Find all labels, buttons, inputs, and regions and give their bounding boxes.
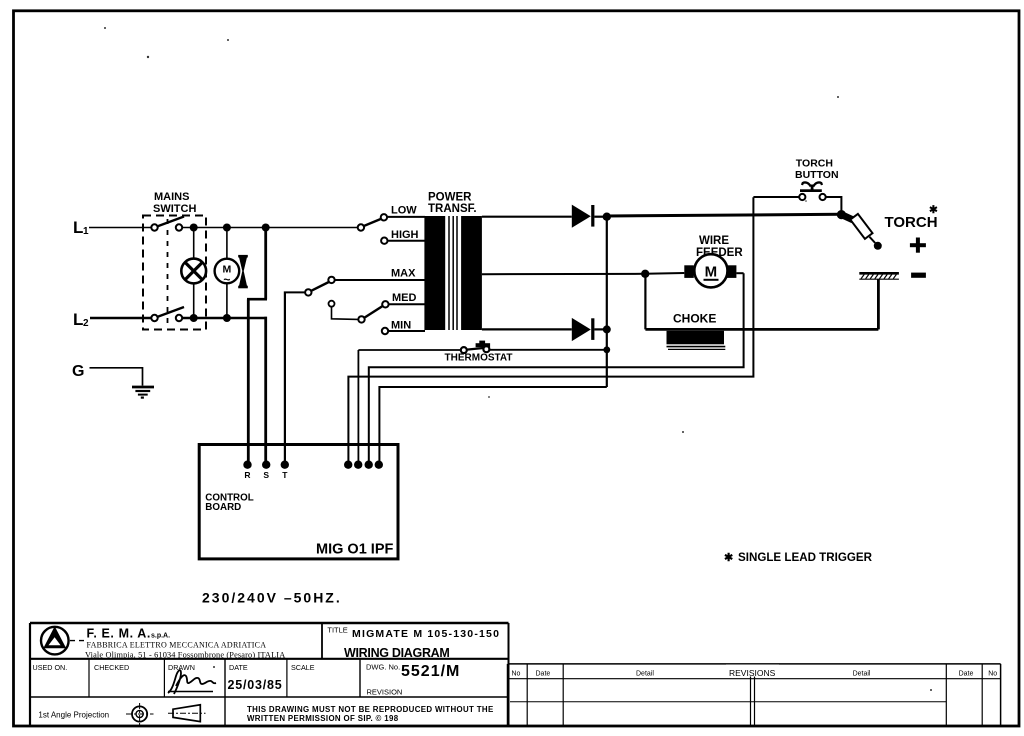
wire T feed [286, 291, 306, 293]
torch button label [795, 158, 839, 181]
wire lamp bottom lead [193, 283, 195, 318]
title field [327, 626, 500, 661]
svg-text:No: No [512, 671, 521, 678]
ground symbol [132, 387, 154, 398]
svg-text:CHECKED: CHECKED [94, 663, 129, 672]
feeder motor M1 [684, 254, 736, 287]
torch button actuator [800, 182, 822, 192]
wire feeder motor right lead [736, 272, 743, 274]
node L2 [73, 310, 89, 329]
tap MIN contact [382, 328, 388, 334]
fine switch blade [358, 306, 383, 323]
company name [85, 627, 285, 660]
svg-text:SINGLE LEAD TRIGGER: SINGLE LEAD TRIGGER [738, 551, 873, 564]
svg-text:TORCH: TORCH [796, 158, 833, 170]
control board U1 [199, 445, 398, 559]
svg-text:CHOKE: CHOKE [673, 312, 716, 326]
svg-text:s.p.A.: s.p.A. [151, 633, 170, 640]
svg-text:BOARD: BOARD [205, 502, 241, 513]
svg-text:MIGMATE M 105-130-150: MIGMATE M 105-130-150 [352, 628, 500, 640]
wire L1 drop to jog [264, 228, 267, 300]
svg-text:Date: Date [536, 671, 551, 678]
revisions labels [512, 665, 998, 679]
table labels [33, 663, 403, 697]
terminal R [243, 461, 251, 469]
mains switch pole 2 [151, 307, 184, 321]
wire fine switch stub [332, 307, 359, 320]
node rectifier + [603, 213, 611, 221]
svg-text:SCALE: SCALE [291, 663, 315, 672]
svg-text:DWG. No.: DWG. No. [366, 663, 400, 672]
terminal T [281, 461, 289, 469]
wire board line B (thermostat) [357, 350, 359, 465]
svg-text:REVISIONS: REVISIONS [729, 668, 776, 678]
transformer T1 label [428, 192, 477, 216]
wire rectifier tie vertical [606, 217, 608, 387]
svg-text:S: S [263, 470, 269, 480]
wire board line C (feed motor return) [369, 273, 744, 465]
terminal 5 [354, 461, 362, 469]
tap HIGH contact [381, 238, 387, 244]
control board label [205, 493, 253, 514]
workpiece electrode [859, 273, 899, 279]
wire T drop to board [284, 291, 286, 464]
transformer T1 primary winding [424, 216, 445, 330]
svg-text:MAX: MAX [391, 268, 416, 280]
svg-text:TORCH: TORCH [885, 214, 938, 231]
svg-text:T: T [282, 470, 288, 480]
wire pole2 to S feed [182, 317, 267, 319]
node D2 output [603, 325, 611, 333]
svg-text:THERMOSTAT: THERMOSTAT [445, 353, 513, 364]
wire button right [826, 197, 842, 213]
pilot lamp [181, 259, 206, 284]
wire centre tap to feeder motor [645, 272, 684, 275]
svg-text:✱: ✱ [929, 204, 938, 216]
mains switch mechanical link (dashed) [167, 219, 169, 328]
terminal S [262, 461, 270, 469]
svg-text:F. E. M. A.: F. E. M. A. [87, 627, 151, 641]
tap MAX contact [328, 277, 334, 283]
svg-text:No: No [988, 671, 997, 678]
title block frame [30, 623, 509, 726]
junction dot fan motor top [223, 224, 231, 232]
wire S drop from L2 to board [264, 317, 267, 465]
wire main positive bus [607, 214, 842, 216]
wire MAX tap [335, 279, 425, 281]
minus symbol [911, 273, 926, 278]
diode D1 [572, 205, 607, 228]
fan blade symbol [238, 255, 248, 288]
choke L1 [667, 331, 726, 350]
svg-text:WIRING DIAGRAM: WIRING DIAGRAM [344, 646, 450, 660]
tap MED contact [382, 301, 388, 307]
svg-text:5521/M: 5521/M [401, 663, 460, 680]
terminal 6 [365, 461, 373, 469]
svg-text:TRANSF.: TRANSF. [428, 203, 477, 215]
svg-text:230/240V –50HZ.: 230/240V –50HZ. [202, 590, 342, 606]
copyright note [247, 705, 494, 723]
wire secondary bottom to diode D2 [482, 328, 572, 330]
mains switch pole 1 [151, 217, 184, 231]
wire negative return [645, 328, 878, 331]
wire board line A (torch button feed) [348, 197, 753, 464]
svg-text:Viale Olimpia, 51 - 61034 Foss: Viale Olimpia, 51 - 61034 Fossombrone (P… [85, 651, 285, 660]
svg-text:✱: ✱ [724, 552, 733, 564]
svg-text:L: L [73, 310, 83, 329]
wire lamp top lead [193, 228, 195, 259]
terminal labels R S T [244, 470, 288, 480]
junction dot lamp bottom [190, 314, 198, 322]
svg-text:USED ON.: USED ON. [33, 663, 68, 672]
torch connector [841, 214, 881, 250]
wire R drop to board [247, 299, 250, 465]
thermostat TH1 [358, 341, 604, 354]
wire button left [753, 196, 799, 198]
first angle symbol [126, 703, 154, 726]
wire fan motor top lead [226, 228, 228, 260]
projection cone symbol [168, 705, 206, 722]
svg-text:MIN: MIN [391, 320, 411, 332]
torch button contacts [799, 194, 826, 200]
svg-text:1st Angle Projection: 1st Angle Projection [38, 711, 109, 720]
svg-text:SWITCH: SWITCH [153, 203, 196, 215]
wire LOW tap [387, 216, 425, 218]
svg-text:1: 1 [83, 226, 89, 237]
terminal 4 [344, 461, 352, 469]
diode D2 [572, 318, 607, 341]
svg-text:MED: MED [392, 292, 417, 304]
wire centre tap down branch [644, 274, 646, 330]
node thermostat to bus [603, 346, 610, 353]
revisions table [508, 664, 1001, 726]
svg-text:DATE: DATE [229, 663, 248, 672]
wire fan motor bottom lead [226, 283, 228, 318]
wire jog horizontal [247, 298, 267, 301]
junction dot lamp top [190, 224, 198, 232]
wire L1 to switch [89, 227, 152, 229]
paper speckles [104, 27, 932, 691]
svg-text:WRITTEN PERMISSION OF SIP. ©: WRITTEN PERMISSION OF SIP. © 198 [247, 714, 399, 723]
node centre tap junction [641, 270, 649, 278]
junction dot L1 drop [262, 224, 270, 232]
svg-text:MAINS: MAINS [154, 191, 189, 203]
wire feeder label [696, 235, 743, 259]
svg-text:BUTTON: BUTTON [795, 169, 839, 181]
svg-text:R: R [244, 470, 250, 480]
junction dot fan motor bottom [223, 314, 231, 322]
wire earth [90, 368, 143, 386]
svg-text:TITLE: TITLE [327, 626, 347, 635]
transformer T1 secondary winding [461, 216, 482, 330]
wire MED tap [389, 303, 425, 305]
wire workpiece drop [877, 279, 880, 329]
node torch junction [837, 210, 846, 219]
wire MIN tap [388, 330, 425, 332]
range switch blade 2 [305, 282, 330, 296]
svg-text:Detail: Detail [853, 671, 871, 678]
terminal 7 [375, 461, 383, 469]
fan motor M [215, 259, 240, 287]
tap LOW contact [381, 214, 387, 220]
svg-text:THIS DRAWING MUST NOT BE REPRO: THIS DRAWING MUST NOT BE REPRODUCED WITH… [247, 705, 494, 714]
range switch blade 1 [358, 218, 383, 231]
svg-text:FABBRICA ELETTRO MECCANICA ADR: FABBRICA ELETTRO MECCANICA ADRIATICA [87, 640, 267, 649]
wire secondary centre tap [482, 273, 645, 275]
svg-text:Date: Date [959, 671, 974, 678]
mains switch S1 label [153, 191, 196, 215]
FEMA logo [41, 626, 85, 654]
svg-text:LOW: LOW [391, 205, 417, 217]
wire secondary top to diode D1 [482, 216, 572, 218]
svg-text:G: G [72, 363, 84, 380]
svg-text:25/03/85: 25/03/85 [228, 678, 283, 692]
transformer T1 core [449, 216, 457, 330]
svg-text:Detail: Detail [636, 671, 654, 678]
svg-text:POWER: POWER [428, 192, 472, 204]
svg-text:REVISION: REVISION [367, 687, 403, 696]
svg-text:L: L [73, 218, 83, 237]
mains switch dashed enclosure [143, 216, 206, 330]
wire pole1 to range switch [182, 227, 358, 229]
node L1 [73, 218, 89, 237]
fine switch stub contact [329, 301, 335, 307]
svg-text:M: M [705, 264, 718, 281]
signature [168, 670, 216, 694]
wire HIGH tap [388, 240, 426, 242]
svg-text:2: 2 [83, 318, 89, 329]
plus symbol [910, 238, 926, 253]
svg-text:WIRE: WIRE [699, 235, 729, 247]
svg-text:MIG O1 IPF: MIG O1 IPF [316, 542, 393, 558]
svg-text:HIGH: HIGH [391, 229, 419, 241]
wire board line D (rectifier sense) [379, 387, 606, 465]
wire L2 to switch [90, 317, 152, 319]
single lead trigger note [724, 551, 873, 564]
